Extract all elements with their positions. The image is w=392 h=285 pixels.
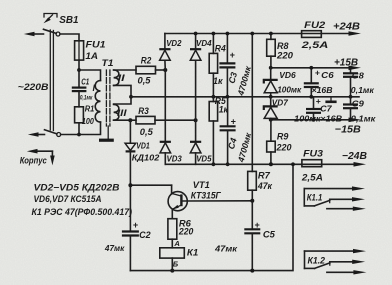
transformer T1 core xyxy=(105,70,107,126)
capacitor C7 xyxy=(313,97,315,109)
node R9 bottom on -24 rail xyxy=(269,162,273,166)
resistor R5 xyxy=(209,102,217,122)
wire winding II top to R2 xyxy=(114,69,136,71)
capacitor C8 xyxy=(350,68,352,74)
node VD6/VD7 on 0V line xyxy=(269,95,273,99)
wire VD2 to node A xyxy=(164,60,166,70)
resistor R6 xyxy=(168,219,177,240)
wire AC input bottom line xyxy=(34,134,45,136)
relay K1 coil xyxy=(160,248,185,258)
net +15V line with arrow xyxy=(271,67,352,69)
fuse FU2 xyxy=(302,31,322,38)
wire emitter to R6 xyxy=(171,209,173,219)
node R1 bottom junction xyxy=(77,133,81,137)
switch SB1 pole 2 blade xyxy=(45,130,57,134)
fuse FU1 xyxy=(75,41,84,60)
diode VD5 xyxy=(190,141,201,143)
resistor R9 xyxy=(270,120,272,141)
node VD1/C2/collector junction xyxy=(128,183,132,187)
ground symbol on 0V line xyxy=(330,97,332,101)
node VD4 top rail junction xyxy=(194,32,198,36)
net 0V center line xyxy=(131,96,359,98)
wire SB1 pole2 to primary bottom xyxy=(61,122,101,134)
transformer T1 secondary winding II xyxy=(114,70,119,85)
wire -24V output with arrow xyxy=(322,163,357,165)
wire node to R3 xyxy=(130,119,136,121)
zener VD6 xyxy=(270,68,272,80)
resistor R8 xyxy=(270,34,272,40)
switch SB1 pole 1 blade xyxy=(44,29,57,33)
capacitor C9 xyxy=(350,97,352,105)
diode VD1 xyxy=(129,120,131,143)
wire R7 feed from +24 rail xyxy=(251,34,253,172)
node C4 bottom on minus rail xyxy=(226,162,230,166)
net +24V raw top rail xyxy=(165,33,302,35)
node C3 bottom on 0V line xyxy=(226,95,230,99)
switch SB1 mechanical link xyxy=(49,30,51,130)
arrow AC input bottom terminal xyxy=(28,132,39,137)
wire collector feed from VD1/C2 node xyxy=(130,184,171,186)
resistor R1 xyxy=(75,107,84,123)
transistor VT1 xyxy=(168,192,187,211)
node B R3/VD4/VD5 junction xyxy=(194,118,198,122)
node R7/C5/base junction xyxy=(250,199,254,203)
diode VD2 xyxy=(159,48,170,50)
capacitor C5 xyxy=(251,201,253,230)
fuse FU3 xyxy=(302,160,322,167)
wire base line to R7/C5 xyxy=(181,200,252,202)
node A R2/VD2/VD3 junction xyxy=(163,68,167,72)
arrow AC input top terminal xyxy=(24,32,35,37)
wire VD4 to node B xyxy=(195,60,197,120)
wire VD3 to minus rail xyxy=(164,153,166,164)
resistor R4 xyxy=(212,34,214,54)
node C5 on bottom return xyxy=(250,269,254,273)
wire node A to VD3 xyxy=(164,70,166,141)
resistor R7 xyxy=(248,171,257,190)
transformer T1 primary winding I xyxy=(95,81,100,123)
capacitor C1 xyxy=(72,86,87,88)
wire FU1 to C1/primary top xyxy=(78,60,80,88)
ground T1 screen xyxy=(107,126,109,139)
switch SB1 actuator symbol xyxy=(44,14,57,18)
node K1 on bottom return xyxy=(170,269,174,273)
chassis terminal Korpus arrow left xyxy=(33,150,52,152)
node VD7/R9/-15 junction xyxy=(269,118,273,122)
capacitor C3 xyxy=(226,34,228,64)
transformer T1 secondary winding III xyxy=(114,105,119,121)
wire +24V output with arrow xyxy=(321,33,352,35)
wire R6 to relay K1 xyxy=(171,239,173,248)
resistor R3 xyxy=(136,116,155,124)
wire node B to VD5 xyxy=(195,120,197,141)
node return/minus rail junction xyxy=(291,162,295,166)
chassis terminal Korpus arrow down xyxy=(51,151,53,160)
node R5 bottom on minus rail xyxy=(212,162,216,166)
diode VD3 xyxy=(160,141,171,143)
net -15V line with arrow xyxy=(271,119,352,121)
relay contact K1.1 xyxy=(304,188,354,190)
relay contact K1.2 xyxy=(305,250,356,252)
wire R1 to AC bottom line xyxy=(78,123,80,135)
wire to primary winding top xyxy=(79,70,101,81)
wire AC input top line xyxy=(30,33,44,35)
capacitor C2 xyxy=(122,230,139,232)
wire from SB1 to FU1 xyxy=(60,34,79,41)
wire R3 to bridge node B xyxy=(155,119,196,121)
node R4/R5 on 0V line xyxy=(212,95,216,99)
wire VD1 to collector node xyxy=(129,151,131,231)
capacitor C4 xyxy=(227,97,229,127)
wire VD5 to minus rail xyxy=(195,153,197,164)
switch SB1 pole 2 contact xyxy=(57,133,61,137)
wire VD2 upper lead xyxy=(164,34,166,49)
wire K1 to bottom return xyxy=(171,258,173,271)
wire VD4 upper lead xyxy=(195,34,197,49)
switch SB1 pole 1 contact xyxy=(56,32,60,36)
zener VD7 xyxy=(270,97,272,107)
net -24V raw bottom rail xyxy=(165,163,302,165)
wire bottom return line xyxy=(130,164,293,270)
node FU1/C1/primary junction xyxy=(77,68,81,72)
node winding III / R3 / VD1 junction xyxy=(128,118,132,122)
node R8/VD6/+15 junction xyxy=(269,66,273,70)
diode VD4 xyxy=(190,48,201,50)
wire winding III bottom to node xyxy=(114,119,131,121)
wire C1 to R1 xyxy=(78,91,80,107)
node center tap xyxy=(129,95,133,99)
wire winding II bottom to center tap xyxy=(114,85,131,104)
resistor R2 xyxy=(136,66,156,74)
capacitor C6 xyxy=(310,68,312,84)
wire R2 to bridge node A xyxy=(156,69,166,71)
